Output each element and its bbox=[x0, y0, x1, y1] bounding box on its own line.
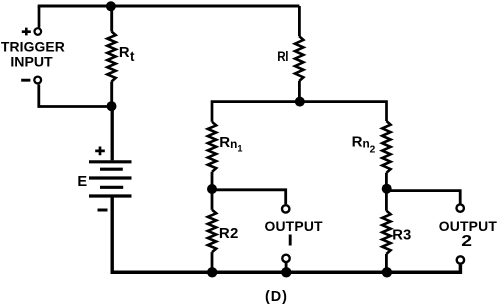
wire: output 1 lower stub bbox=[285, 263, 288, 270]
resistor Rt zigzag bbox=[107, 32, 115, 82]
terminal: output 1 upper circle bbox=[282, 205, 289, 212]
resistor Rl zigzag bbox=[295, 36, 303, 81]
wire: top horizontal bus bbox=[38, 5, 300, 8]
node: junction R2 / bottom bus bbox=[207, 267, 217, 277]
node: junction Rt / battery / trigger - bbox=[107, 101, 117, 111]
terminal: trigger + input circle bbox=[35, 28, 42, 35]
battery E plate 3 (long) bbox=[89, 176, 132, 179]
svg-text:Rl: Rl bbox=[277, 48, 288, 64]
svg-text:R2: R2 bbox=[219, 225, 239, 242]
resistor Rn1 bottom lead bbox=[211, 172, 214, 189]
label: 1 bbox=[287, 232, 293, 249]
wire: bottom horizontal bus rising to output 2 lower terminal bbox=[111, 265, 461, 273]
svg-text:INPUT: INPUT bbox=[10, 54, 53, 70]
resistor Rn1 zigzag bbox=[208, 122, 216, 172]
svg-text:Rn2: Rn2 bbox=[352, 134, 376, 156]
svg-text:OUTPUT: OUTPUT bbox=[264, 218, 323, 234]
resistor R2 top lead bbox=[211, 189, 214, 210]
resistor Rt top lead bbox=[110, 6, 113, 32]
wire: battery bottom lead bbox=[110, 196, 113, 272]
wire: to output 2 upper terminal bbox=[387, 191, 461, 204]
battery E plate 2 (short) bbox=[100, 168, 123, 171]
wire: - terminal to Rt bottom junction bbox=[39, 84, 112, 106]
label: - (battery) bbox=[98, 209, 108, 212]
label: - (trigger) bbox=[21, 79, 30, 82]
wire: to output 1 upper terminal bbox=[212, 190, 286, 204]
resistor R2 bottom lead bbox=[211, 252, 214, 272]
resistor Rn2 bottom lead bbox=[385, 173, 388, 189]
svg-text:I: I bbox=[287, 232, 293, 249]
wire: trigger + terminal riser bbox=[38, 6, 41, 28]
node: junction Rn2 / R3 / output 2 bbox=[382, 184, 392, 194]
battery E plate 5 (long) bbox=[89, 194, 132, 197]
resistor Rl bottom lead bbox=[298, 81, 301, 102]
svg-text:TRIGGER: TRIGGER bbox=[1, 39, 65, 55]
node: junction Rl bottom / mid bus bbox=[295, 97, 305, 107]
node: junction R3 / bottom bus bbox=[382, 267, 392, 277]
resistor Rn2 zigzag bbox=[382, 121, 390, 173]
svg-text:E: E bbox=[77, 174, 87, 190]
wire: mid horizontal bus with corners down to Rn1 and Rn2 bbox=[212, 102, 387, 122]
resistor R3 top lead bbox=[385, 189, 388, 211]
battery E plate 1 (long +) bbox=[89, 160, 132, 163]
label Rl bbox=[277, 48, 288, 64]
svg-text:(D): (D) bbox=[265, 289, 288, 305]
terminal: output 2 upper circle bbox=[457, 204, 464, 211]
node: junction Rn1 / R2 / output 1 bbox=[207, 184, 217, 194]
svg-text:R3: R3 bbox=[392, 227, 411, 243]
svg-text:2: 2 bbox=[461, 232, 472, 250]
terminal: output 1 lower circle bbox=[282, 255, 289, 262]
svg-text:Rn1: Rn1 bbox=[219, 134, 242, 154]
resistor R3 bottom lead bbox=[385, 254, 388, 272]
node: junction top of Rt bbox=[106, 1, 116, 11]
label: 2 bbox=[461, 232, 472, 250]
resistor R3 zigzag bbox=[382, 211, 390, 254]
resistor Rl top lead bbox=[298, 6, 301, 36]
node: junction output 1 / bottom bus bbox=[281, 267, 291, 277]
resistor Rt bottom lead bbox=[110, 82, 113, 107]
terminal: output 2 lower circle bbox=[457, 256, 464, 263]
battery E plate 4 (short) bbox=[100, 186, 123, 189]
label: + (battery) bbox=[95, 147, 105, 156]
label: + (trigger) bbox=[22, 28, 31, 36]
terminal: trigger - input circle bbox=[34, 77, 41, 84]
wire: battery top lead bbox=[111, 106, 114, 160]
resistor R2 zigzag bbox=[208, 210, 216, 252]
svg-text:Rt: Rt bbox=[119, 45, 135, 64]
